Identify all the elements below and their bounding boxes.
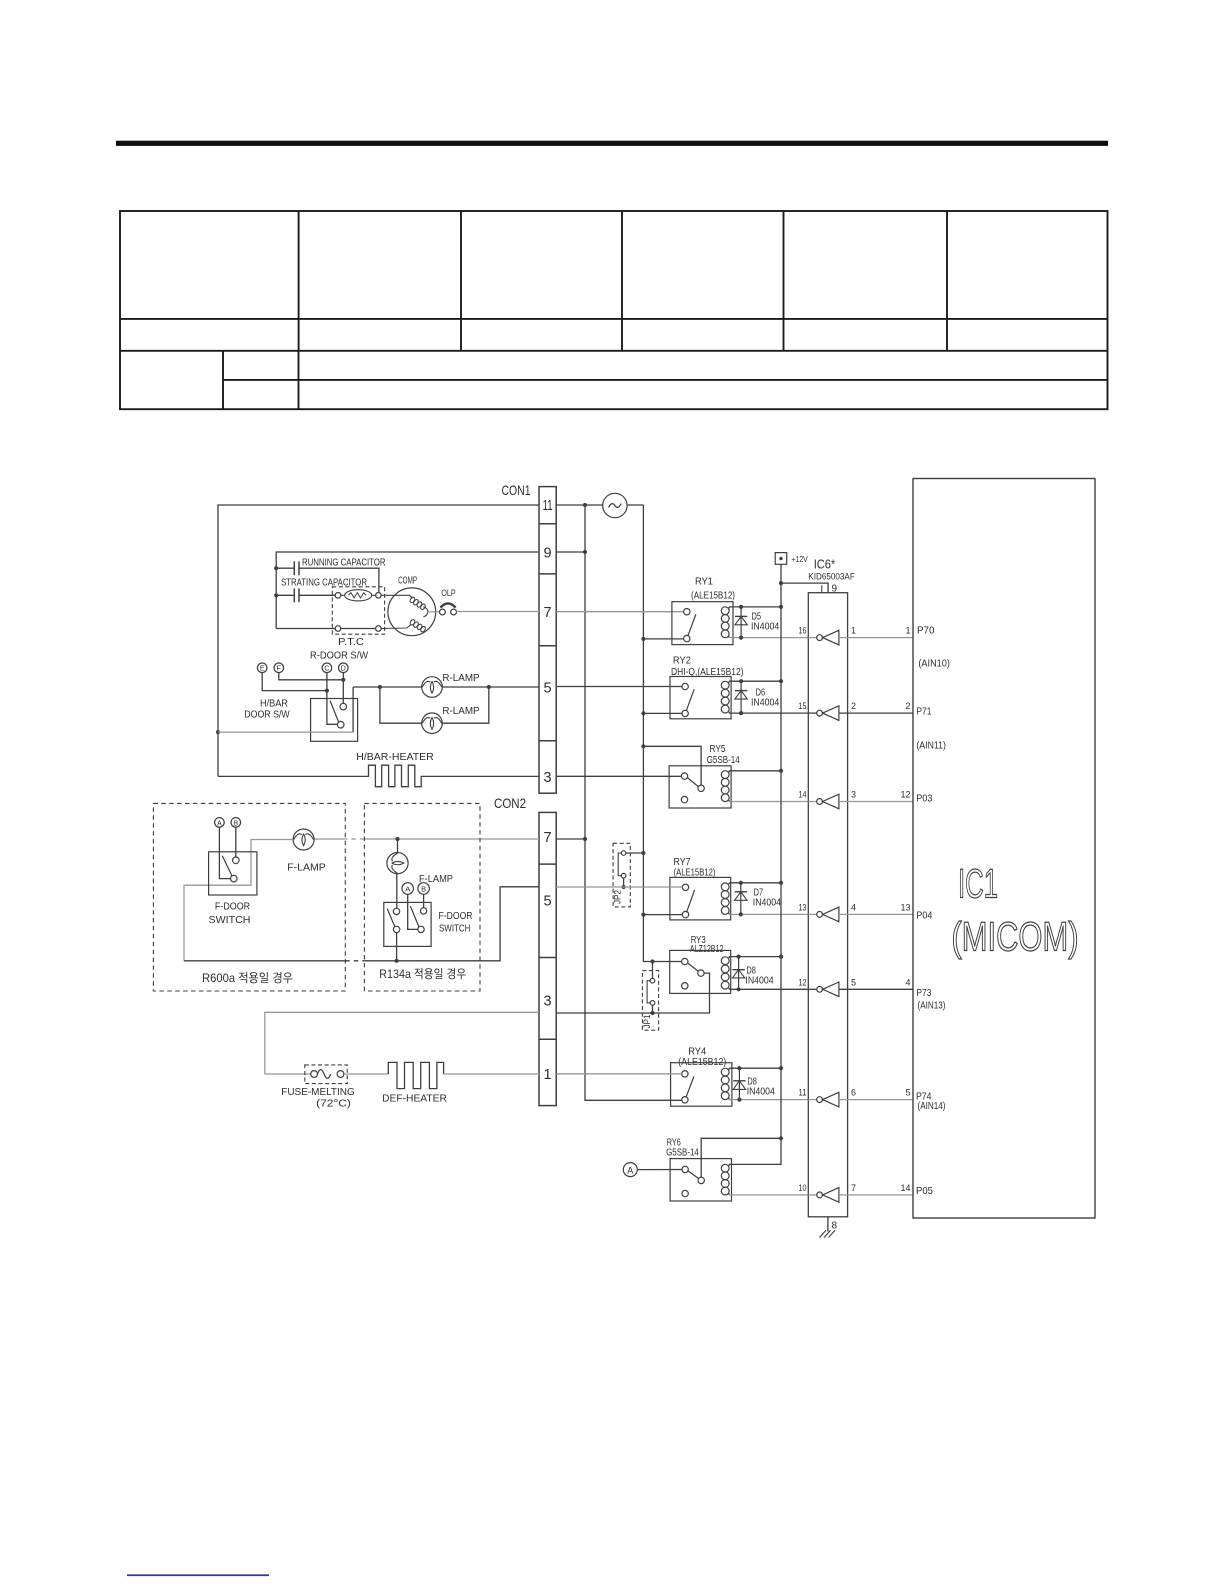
wire CON1 pin5 to RY2 [556, 686, 682, 688]
junction capacitor loop / starting capacitor [274, 593, 278, 597]
junction pin11 / live bus [583, 503, 587, 507]
wire RY7 contact to N bus [643, 914, 682, 916]
svg-text:CON1: CON1 [502, 482, 531, 498]
svg-text:B: B [233, 820, 238, 827]
svg-text:P03: P03 [916, 792, 932, 804]
wire CON2 pin1 to RY4 contact [556, 1073, 682, 1075]
junction N bus / RY1 contact [641, 637, 645, 641]
svg-text:13: 13 [799, 902, 807, 912]
junction N bus / RY2 contact [641, 711, 645, 715]
diode D8 (RY3) [738, 957, 740, 990]
svg-text:A: A [405, 885, 410, 894]
node C terminal [322, 663, 332, 673]
svg-text:G5SB-14: G5SB-14 [707, 755, 740, 766]
svg-text:(AIN14): (AIN14) [918, 1101, 946, 1112]
svg-text:OLP: OLP [441, 588, 455, 598]
wire CON1 pin7 to RY1 [556, 611, 683, 613]
lamp F-LAMP (R600a) [293, 829, 314, 850]
junction D6 anode [739, 679, 743, 683]
svg-text:2: 2 [851, 701, 856, 711]
jumper JP2 [613, 843, 644, 907]
svg-text:15: 15 [799, 701, 807, 711]
wire RY7 coil to IC6 input 13 [729, 913, 808, 915]
junction outer loop / door switch feed [216, 730, 220, 734]
wire capacitor loop bottom to COMP [276, 628, 375, 630]
wire CON2 pin5 to RY7 contact [556, 886, 682, 888]
svg-text:P.T.C: P.T.C [338, 637, 364, 648]
svg-text:H/BAR-HEATER: H/BAR-HEATER [356, 751, 434, 763]
diode D7 [740, 883, 742, 915]
svg-text:A: A [217, 820, 222, 827]
svg-text:5: 5 [851, 977, 856, 987]
junction capacitor loop / running capacitor [274, 566, 278, 570]
wire RY1 coil to +12V bus [729, 606, 781, 608]
svg-text:RY5: RY5 [710, 743, 726, 755]
svg-text:1: 1 [851, 626, 856, 636]
svg-text:SWITCH: SWITCH [209, 914, 251, 926]
svg-text:(AIN13): (AIN13) [918, 1000, 946, 1011]
wire RY5 coil to IC6 input 14 [729, 801, 808, 803]
diode D6 [740, 681, 742, 713]
heater H/BAR-HEATER [218, 751, 539, 787]
wire door switch feed (grey) [218, 731, 353, 733]
power +12V supply [775, 553, 808, 565]
diode D5 [740, 607, 742, 638]
junction JP1 / CON2 pin3 wire [650, 1011, 654, 1015]
wire RY4 coil to +12V bus [729, 1067, 781, 1069]
junction D5 anode [739, 605, 743, 609]
junction return wire / R134a switch [395, 959, 399, 963]
junction D7 cathode [739, 912, 743, 916]
svg-text:9: 9 [544, 546, 552, 562]
wire RY7 coil to +12V bus [729, 882, 781, 884]
svg-text:FUSE-MELTING: FUSE-MELTING [281, 1086, 355, 1098]
svg-text:JP2: JP2 [613, 890, 623, 904]
micom IC1 [913, 479, 1095, 1219]
box R134a variant (dashed) [364, 803, 480, 991]
svg-text:IC6*: IC6* [814, 557, 836, 572]
junction live bus / CON1 pin9 [583, 550, 587, 554]
box R600a variant (dashed) [153, 803, 345, 991]
svg-text:KID65003AF: KID65003AF [808, 571, 855, 581]
wire IC6 out 5 to MICOM pin 4 [839, 988, 913, 990]
svg-text:4: 4 [905, 977, 910, 987]
svg-text:5: 5 [544, 893, 552, 909]
node F terminal [274, 663, 284, 673]
junction N bus / RY5 wire [641, 744, 645, 748]
wire RY1 coil to IC6 input 16 [729, 637, 808, 639]
junction JP1 / RY3 common wire [650, 959, 654, 963]
lamp F-LAMP (R134a) [387, 839, 453, 885]
junction D8 cathode (RY4) [737, 1098, 741, 1102]
wire RY4 coil to IC6 input 11 [729, 1099, 808, 1101]
junction D6 cathode [739, 711, 743, 715]
wire lamp return to CON2 pin5 [184, 887, 539, 961]
wire RY3 moving contact to CON2 pin3 [556, 973, 709, 1013]
wire CON1 pin11 to AC source [556, 504, 603, 506]
svg-text:7: 7 [851, 1183, 856, 1193]
svg-text:4: 4 [851, 902, 856, 912]
jumper JP1 [642, 962, 659, 1031]
svg-text:A: A [627, 1165, 633, 1175]
wire R134a switch to return wire [396, 933, 398, 961]
wire F-LAMP to F-DOOR switch (R600a) [184, 840, 293, 961]
svg-text:H/BAR: H/BAR [260, 697, 288, 709]
junction D8 cathode (RY3) [737, 987, 741, 991]
svg-text:(MICOM): (MICOM) [952, 914, 1079, 960]
svg-text:9: 9 [832, 583, 838, 594]
relay RY6 [666, 1137, 731, 1201]
svg-text:14: 14 [900, 1183, 910, 1193]
lamp R-LAMP (upper) [422, 677, 443, 698]
wire IC6 out 2 to MICOM pin 2 [839, 712, 913, 714]
svg-text:3: 3 [544, 993, 552, 1009]
junction +12V bus / RY6 [779, 1136, 783, 1140]
junction +12V / RY7 coil [779, 881, 783, 885]
svg-text:F: F [277, 666, 281, 673]
footer rule [127, 1574, 269, 1576]
svg-text:R-LAMP: R-LAMP [442, 705, 479, 717]
svg-text:8: 8 [832, 1221, 838, 1232]
svg-text:5: 5 [905, 1088, 910, 1098]
svg-text:12: 12 [900, 790, 910, 800]
svg-text:R600a 적용일 경우: R600a 적용일 경우 [202, 971, 293, 985]
wire CON1 pin9 to capacitor loop [276, 552, 539, 629]
wire CON2 pin7 to lamps [314, 838, 585, 840]
svg-text:COMP: COMP [398, 575, 417, 586]
svg-text:11: 11 [543, 498, 553, 514]
wire AC source to N bus [627, 504, 643, 506]
svg-text:(ALE15B12): (ALE15B12) [674, 867, 716, 878]
svg-text:(72°C): (72°C) [316, 1097, 351, 1109]
svg-text:DOOR S/W: DOOR S/W [244, 709, 290, 721]
svg-text:JP1: JP1 [642, 1015, 652, 1029]
wire IC6 out 7 to MICOM pin 14 [839, 1194, 913, 1196]
driver IC6 KID65003AF [808, 557, 855, 1217]
wire live bus (x585) [585, 505, 682, 1100]
node B terminal (R134a switch) [418, 883, 430, 895]
svg-text:DEF-HEATER: DEF-HEATER [382, 1092, 447, 1104]
svg-text:C: C [324, 666, 329, 673]
junction D5 cathode [739, 636, 743, 640]
wire +12V to IC6 COM pin 9 [781, 583, 828, 593]
svg-text:14: 14 [799, 790, 807, 800]
header rule [116, 141, 1108, 146]
svg-text:IC1: IC1 [958, 861, 998, 907]
inverter IC6 channel 7 [808, 1188, 839, 1203]
motor COMP (compressor) [381, 575, 436, 635]
junction D8 anode (RY3) [737, 955, 741, 959]
svg-text:R-LAMP: R-LAMP [442, 672, 479, 684]
junction N bus / RY7 contact [641, 913, 645, 917]
junction D7 anode [739, 881, 743, 885]
wire CON1 pin3 to RY5 [556, 775, 681, 777]
relay RY2 [670, 655, 744, 719]
junction CON2 pin7 wire / F-LAMP (R134a) [395, 837, 399, 841]
svg-text:SWITCH: SWITCH [439, 922, 470, 934]
node B terminal (R600a switch) [231, 818, 241, 828]
svg-text:3: 3 [851, 790, 856, 800]
wire A terminal to RY6 [637, 1169, 682, 1171]
capacitor RUNNING CAPACITOR [276, 558, 385, 593]
svg-text:7: 7 [544, 830, 552, 846]
svg-text:IN4004: IN4004 [753, 898, 782, 909]
connector CON1 [502, 482, 557, 793]
svg-text:D: D [341, 666, 346, 673]
svg-text:1: 1 [544, 1067, 552, 1083]
svg-text:RY2: RY2 [673, 655, 691, 667]
wire IC6 out 4 to MICOM pin 13 [839, 913, 913, 915]
table grid [120, 211, 1108, 409]
switch F-DOOR SWITCH (R600a) [209, 827, 257, 926]
junction +12V / IC6 pin9 [779, 581, 783, 585]
junction +12V / RY4 coil [779, 1066, 783, 1070]
relay RY3 [670, 934, 731, 994]
heater DEF-HEATER [344, 1062, 539, 1104]
junction N bus / JP2 [641, 851, 645, 855]
wire CON1 pin5 drop to switch [352, 687, 354, 732]
wire RY3 coil to +12V bus [729, 956, 781, 958]
svg-text:7: 7 [544, 605, 552, 621]
junction +12V / RY1 coil [779, 605, 783, 609]
wire CON2 pin3 to fuse loop [265, 1012, 539, 1074]
svg-text:RY1: RY1 [695, 576, 713, 588]
wire N bus (x643) [643, 505, 681, 962]
svg-text:E: E [260, 666, 265, 673]
svg-text:IN4004: IN4004 [751, 621, 780, 632]
relay RY1 [672, 576, 735, 645]
wire RY3 coil to IC6 input 12 [729, 988, 808, 990]
inverter IC6 channel 5 [808, 982, 839, 997]
inverter IC6 channel 6 [808, 1092, 839, 1107]
svg-text:CON2: CON2 [494, 795, 526, 811]
capacitor STRATING CAPACITOR [276, 578, 367, 603]
junction +12V / RY3 coil [779, 955, 783, 959]
P.T.C thermistor [332, 587, 384, 648]
svg-text:F-DOOR: F-DOOR [439, 910, 473, 922]
node E terminal [257, 663, 267, 673]
svg-text:2: 2 [905, 701, 910, 711]
wire IC6 out 1 to MICOM pin 1 [839, 637, 913, 639]
svg-text:P05: P05 [916, 1185, 933, 1197]
diode D8 (RY4) [738, 1068, 740, 1099]
junction +12V / RY5 coil [779, 769, 783, 773]
svg-text:(AIN10): (AIN10) [918, 659, 950, 670]
svg-text:12: 12 [799, 977, 807, 987]
wire CON1 pin5 / R-LAMP branch [353, 685, 539, 723]
junction live bus / CON2 pin7 [583, 837, 587, 841]
wire RY6 coil to IC6 input 10 [729, 1194, 808, 1196]
node A terminal (R600a switch) [215, 818, 225, 828]
svg-text:RUNNING CAPACITOR: RUNNING CAPACITOR [302, 558, 386, 569]
switch F-DOOR SWITCH (R134a) [384, 874, 473, 947]
switch H/BAR DOOR S/W [244, 673, 357, 742]
svg-text:IN4004: IN4004 [747, 1087, 776, 1098]
fuse FUSE-MELTING 72C [265, 1065, 355, 1109]
wire +12V bus tail to RY6 coil [729, 1138, 781, 1164]
svg-text:1: 1 [905, 626, 910, 636]
svg-text:3: 3 [544, 770, 552, 786]
inverter IC6 channel 3 [808, 794, 839, 809]
svg-text:B: B [421, 885, 426, 894]
lamp R-LAMP (lower) [422, 713, 443, 734]
wire IC6 out 3 to MICOM pin 12 [839, 801, 913, 803]
junction JP2 / CON2 pin5 wire [622, 885, 626, 889]
relay RY4 [671, 1046, 732, 1107]
svg-text:F-LAMP: F-LAMP [287, 862, 326, 874]
svg-text:R134a 적용일 경우: R134a 적용일 경우 [379, 967, 466, 981]
svg-text:10: 10 [799, 1183, 807, 1193]
node A terminal (RY6) [623, 1163, 637, 1177]
svg-text:P04: P04 [916, 909, 932, 921]
svg-text:RY7: RY7 [674, 856, 691, 868]
svg-text:11: 11 [799, 1088, 807, 1098]
svg-text:(AIN11): (AIN11) [916, 741, 946, 752]
node A terminal (R134a switch) [402, 883, 414, 895]
svg-text:(ALE15B12): (ALE15B12) [691, 591, 735, 602]
svg-text:13: 13 [900, 902, 910, 912]
protector OLP [436, 588, 457, 615]
svg-text:P70: P70 [917, 625, 935, 637]
wire +12V bus [780, 564, 782, 1138]
relay RY5 [669, 743, 740, 808]
wire RY5 coil to +12V bus [729, 770, 781, 772]
wire RY2 coil to IC6 input 15 [729, 712, 808, 714]
svg-text:16: 16 [799, 626, 807, 636]
svg-text:RY4: RY4 [688, 1046, 706, 1058]
wire OLP to CON1 pin7 [456, 611, 539, 613]
relay RY7 [670, 856, 731, 920]
wire RY1 contact to N bus [643, 638, 683, 640]
wire IC6 out 6 to MICOM pin 5 [839, 1099, 913, 1101]
wire CON1 pin11 left to outer loop [218, 505, 539, 776]
svg-text:G5SB-14: G5SB-14 [666, 1147, 699, 1158]
junction +12V / RY2 coil [779, 679, 783, 683]
svg-text:P73: P73 [916, 987, 931, 999]
inverter IC6 channel 4 [808, 907, 839, 922]
svg-text:5: 5 [544, 681, 552, 697]
svg-text:+12V: +12V [792, 554, 808, 564]
svg-text:F-DOOR: F-DOOR [215, 901, 251, 913]
svg-text:IN4004: IN4004 [751, 697, 780, 708]
inverter IC6 channel 1 [808, 630, 839, 645]
svg-text:R-DOOR S/W: R-DOOR S/W [310, 650, 368, 662]
svg-text:6: 6 [851, 1088, 856, 1098]
wire RY6 moving contact to +12V bus [701, 1138, 781, 1177]
ground IC6 pin 8 [820, 1217, 838, 1238]
wire RY2 coil to +12V bus [729, 680, 781, 682]
wire N bus to RY5 moving contact [643, 746, 701, 785]
wire RY2 contact to N bus [643, 712, 682, 714]
svg-text:P71: P71 [916, 705, 931, 717]
inverter IC6 channel 2 [808, 706, 839, 721]
svg-text:IN4004: IN4004 [745, 975, 774, 986]
AC source [603, 493, 627, 517]
junction D8 anode (RY4) [737, 1066, 741, 1070]
svg-text:ALZ12B12: ALZ12B12 [690, 944, 724, 955]
wire RY4 contact to live bus [585, 1099, 682, 1101]
node D terminal [339, 663, 349, 673]
connector CON2 [494, 795, 556, 1106]
